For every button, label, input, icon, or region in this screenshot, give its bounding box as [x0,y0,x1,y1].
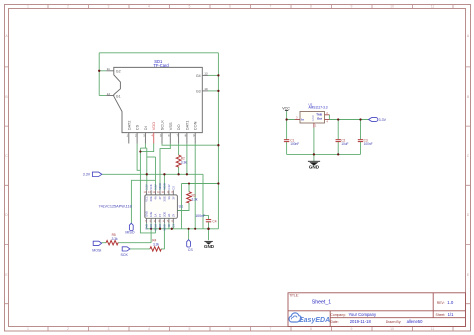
svg-text:MISO: MISO [158,183,162,190]
svg-text:11: 11 [431,327,435,331]
svg-text:8: 8 [310,5,312,9]
svg-text:11: 11 [431,5,435,9]
svg-text:3.3k: 3.3k [192,198,198,202]
svg-text:GND: GND [145,224,149,230]
svg-text:DO: DO [158,224,162,228]
svg-text:10: 10 [390,5,394,9]
svg-text:9: 9 [351,327,353,331]
svg-text:3Y: 3Y [171,196,175,199]
svg-text:1A: 1A [154,213,158,216]
svg-text:allene50: allene50 [407,319,424,324]
svg-text:MOSI: MOSI [163,224,167,231]
svg-text:4: 4 [148,327,150,331]
svg-text:3A: 3A [167,196,171,199]
svg-text:3.3V: 3.3V [154,184,158,190]
svg-text:1Y: 1Y [158,213,162,216]
svg-text:GND: GND [311,115,315,121]
svg-text:5: 5 [189,5,191,9]
svg-text:13: 13 [204,72,208,76]
svg-text:SCLK: SCLK [160,120,165,131]
svg-text:DAT2: DAT2 [126,121,131,131]
svg-text:3.3k: 3.3k [153,242,159,246]
svg-text:Sheet:: Sheet: [436,313,446,317]
svg-text:G4: G4 [196,74,201,78]
svg-text:VSS: VSS [168,122,173,130]
svg-text:12: 12 [107,92,111,96]
svg-text:3: 3 [108,327,110,331]
svg-text:TITLE:: TITLE: [289,293,299,297]
svg-text:2: 2 [67,327,69,331]
svg-text:2019-11-18: 2019-11-18 [350,319,372,324]
svg-text:6: 6 [229,327,231,331]
svg-text:AMS1117-3.3: AMS1117-3.3 [309,106,328,110]
svg-text:In: In [301,118,304,122]
svg-text:3.3V: 3.3V [83,172,91,176]
svg-text:2OE: 2OE [163,211,167,216]
svg-text:SCK: SCK [149,184,153,190]
svg-text:DAT1: DAT1 [184,121,189,131]
svg-text:74LVC125APW,118: 74LVC125APW,118 [99,204,132,208]
svg-text:CS: CS [171,224,175,228]
svg-text:G1: G1 [116,94,121,98]
svg-text:3.3k: 3.3k [112,237,118,241]
svg-text:U1: U1 [179,205,184,209]
svg-text:3: 3 [108,5,110,9]
svg-text:GND: GND [145,211,149,217]
svg-text:SCK: SCK [121,253,129,257]
svg-text:SCK: SCK [149,224,153,230]
svg-text:VCC: VCC [282,107,290,111]
svg-text:3.3V: 3.3V [145,184,149,190]
svg-text:G3: G3 [196,90,201,94]
svg-text:TF-Card: TF-Card [153,63,169,68]
svg-text:10uF: 10uF [341,142,348,146]
svg-text:4: 4 [148,5,150,9]
svg-text:CS: CS [171,186,175,190]
svg-text:Out: Out [317,117,322,121]
svg-text:MOSI: MOSI [92,249,101,253]
svg-text:1: 1 [27,5,29,9]
svg-text:REV:: REV: [437,301,445,305]
svg-text:3.3k: 3.3k [181,161,187,165]
svg-text:9: 9 [351,5,353,9]
svg-text:CS: CS [188,248,194,252]
svg-text:Sheet_1: Sheet_1 [312,300,331,306]
svg-text:4OE: 4OE [149,196,153,201]
svg-text:7: 7 [270,327,272,331]
svg-text:G2: G2 [116,69,121,73]
svg-text:MISO: MISO [125,231,134,235]
svg-text:Drawn By:: Drawn By: [386,320,402,324]
svg-text:1/1: 1/1 [448,312,454,317]
svg-text:C4: C4 [212,219,216,223]
svg-text:GND: GND [204,244,215,249]
svg-text:7: 7 [270,5,272,9]
svg-text:CS: CS [135,124,140,130]
svg-text:1.0: 1.0 [447,300,454,305]
svg-text:VDD: VDD [151,122,156,130]
svg-text:1OE: 1OE [149,211,153,216]
svg-text:DI: DI [167,224,171,227]
svg-text:5: 5 [189,327,191,331]
svg-text:8: 8 [310,327,312,331]
svg-text:EasyEDA: EasyEDA [299,317,330,324]
svg-text:4A: 4A [154,196,158,199]
svg-text:SCLK: SCLK [154,224,158,231]
svg-text:10: 10 [204,87,208,91]
svg-text:Company:: Company: [330,313,346,317]
svg-text:CON: CON [193,121,198,130]
svg-text:DO: DO [176,124,181,130]
svg-text:DI: DI [143,126,148,130]
svg-text:GND: GND [309,164,320,169]
svg-text:10: 10 [390,327,394,331]
svg-text:VCC: VCC [145,196,149,202]
svg-text:11: 11 [107,67,110,71]
svg-text:6: 6 [229,5,231,9]
svg-text:3.3V: 3.3V [379,118,387,122]
svg-text:2Y: 2Y [171,213,175,216]
svg-text:2A: 2A [167,213,171,216]
svg-text:3OE: 3OE [163,196,167,201]
svg-text:2: 2 [67,5,69,9]
svg-text:3.3V: 3.3V [167,184,171,190]
svg-text:MOSI: MOSI [163,183,167,190]
svg-text:Your Company: Your Company [349,312,377,317]
svg-text:100nF: 100nF [195,214,206,218]
svg-text:4Y: 4Y [158,196,162,199]
svg-text:1: 1 [27,327,29,331]
svg-text:Date:: Date: [331,320,339,324]
svg-text:100nF: 100nF [290,142,299,146]
svg-text:100nF: 100nF [364,142,373,146]
